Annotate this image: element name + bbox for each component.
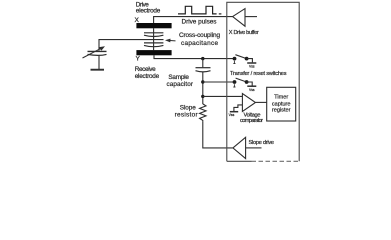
svg-text:X Drive buffer: X Drive buffer <box>229 30 259 36</box>
node: sample capacitor tap on Y wire <box>201 57 204 60</box>
drive pulses waveform <box>178 6 217 14</box>
Vss bar of SW1 <box>247 62 256 64</box>
X drive buffer U1 <box>233 9 245 27</box>
svg-text:electrode: electrode <box>136 8 161 15</box>
ground bar <box>91 69 105 71</box>
svg-text:capture: capture <box>272 101 291 107</box>
svg-text:Slope: Slope <box>180 104 196 111</box>
svg-text:capacitor: capacitor <box>167 81 194 88</box>
svg-text:resistor: resistor <box>175 111 199 118</box>
svg-text:Vss: Vss <box>249 64 255 68</box>
timer capture register box <box>267 87 296 121</box>
chip outline top edge <box>227 2 299 161</box>
svg-text:Vss: Vss <box>249 88 255 92</box>
transfer/reset switch SW2 lever <box>236 78 247 82</box>
cross-coupling capacitor C1 flat plate <box>144 32 163 34</box>
wire: slope node to voltage comparator input <box>203 95 242 97</box>
wire: sample capacitor node to transfer switch SW2 <box>203 81 235 83</box>
svg-text:Vss: Vss <box>229 113 235 117</box>
comparator reference input wire <box>234 105 243 111</box>
arrow to cross-coupling capacitance <box>168 39 176 42</box>
sample capacitor flat plate <box>196 67 211 69</box>
voltage comparator U2 <box>242 94 255 112</box>
sample capacitor curved plate <box>196 71 211 72</box>
drive electrode X bar <box>136 23 171 28</box>
SW1 control tick <box>233 61 235 64</box>
node: comparator tap <box>201 95 204 98</box>
variable touch capacitor top plate <box>88 50 107 52</box>
wire: sample capacitor down the slope rail <box>202 72 204 105</box>
cross-coupling capacitor C1 curved plate <box>144 35 163 36</box>
svg-text:register: register <box>272 108 291 114</box>
receive electrode Y bar <box>136 50 171 55</box>
svg-text:comparator: comparator <box>240 118 263 124</box>
wire: touch capacitor to ground <box>98 55 100 69</box>
cross-coupling capacitor C2 curved plate <box>144 45 163 46</box>
transfer/reset switch SW1 right node <box>245 57 249 61</box>
transfer/reset switch SW1 left node <box>233 57 237 61</box>
svg-text:Y: Y <box>136 56 141 63</box>
svg-text:Transfer / reset switches: Transfer / reset switches <box>230 71 287 77</box>
cross-coupling capacitor C2 flat plate <box>144 42 163 44</box>
node: transfer switch tap <box>201 80 204 83</box>
wire: slope drive buffer input stub <box>246 147 262 149</box>
svg-text:capacitance: capacitance <box>181 40 218 47</box>
wire: comparator output to timer capture register <box>255 101 266 103</box>
wire: Y electrode to transfer/reset switch SW1 <box>154 55 235 58</box>
svg-text:Drive pulses: Drive pulses <box>182 19 217 26</box>
wire: SW2 to Vss <box>247 82 253 86</box>
chip outline bottom edge (part solid, part dashed) <box>227 160 252 162</box>
wire: X drive buffer input stub <box>245 16 257 18</box>
wire: tap to sample capacitor <box>202 59 204 68</box>
wire: X drive buffer to X electrode <box>154 17 233 24</box>
svg-text:Cross-coupling: Cross-coupling <box>179 32 220 39</box>
Vss bar of comparator <box>230 111 238 113</box>
svg-text:Slope drive: Slope drive <box>249 140 275 146</box>
variable capacitor arrow <box>83 48 103 58</box>
transfer/reset switch SW2 right node <box>245 80 249 84</box>
Vss bar of SW2 <box>247 85 256 87</box>
slope resistor <box>200 104 206 122</box>
wire: slope resistor to slope drive buffer <box>203 122 233 148</box>
transfer/reset switch SW1 lever <box>235 55 246 59</box>
variable touch capacitor bottom plate (curved) <box>88 54 107 55</box>
cross-coupling capacitance stem <box>153 28 155 50</box>
transfer/reset switch SW2 left node <box>233 80 237 84</box>
slope drive buffer U3 <box>233 137 246 158</box>
wire: SW1 to Vss <box>247 59 253 63</box>
svg-text:Timer: Timer <box>274 95 288 101</box>
svg-text:electrode: electrode <box>135 73 160 80</box>
SW2 control tick <box>233 84 235 87</box>
wire: cross-coupling mid node to touch capacitor <box>99 40 164 51</box>
